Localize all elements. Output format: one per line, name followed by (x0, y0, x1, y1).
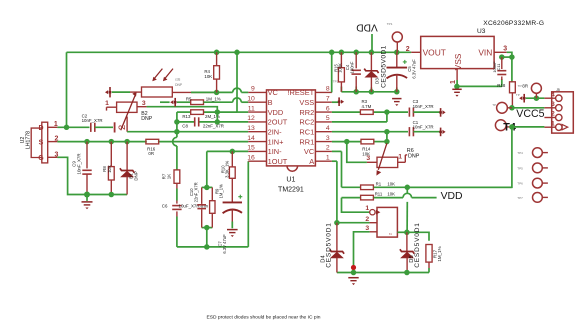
net flag B (170, 98, 176, 107)
node VDD junction C5 (394, 50, 400, 56)
Q1 pin1 bubble (365, 205, 380, 215)
wire pin4 row (332, 131, 408, 133)
svg-text:DNP: DNP (408, 154, 420, 160)
svg-text:15: 15 (247, 145, 255, 152)
node VSS junction (454, 84, 460, 90)
node C8 left junction (174, 119, 180, 125)
net flag C1 (439, 128, 445, 137)
node A junction (334, 220, 340, 226)
ground output (348, 278, 358, 285)
svg-text:9: 9 (251, 86, 255, 93)
svg-text:R5: R5 (186, 97, 192, 102)
node R8 gnd junction (109, 192, 115, 198)
svg-text:4.7M: 4.7M (362, 104, 372, 109)
svg-text:TP: TP (516, 93, 520, 97)
regulator U3 XC6206P332MR-G body (421, 36, 494, 70)
resistor R11 (361, 191, 396, 200)
resistor R9 (210, 184, 224, 228)
svg-text:!RESET: !RESET (287, 88, 314, 97)
svg-text:TP5: TP5 (517, 167, 523, 171)
node C10R9 bottom junction (204, 225, 210, 231)
wire VDD top rail (67, 52, 412, 127)
connector J5 body (552, 88, 574, 133)
resistor R5 (177, 97, 248, 105)
svg-text:TP1: TP1 (387, 22, 393, 26)
capacitor C2 (82, 114, 103, 132)
capacitor C4 (345, 52, 361, 92)
node R8 top junction (109, 139, 115, 145)
wire B2 wiper to pin13 column (127, 131, 177, 133)
svg-text:22nF_X7R: 22nF_X7R (203, 124, 224, 129)
svg-text:DNP: DNP (133, 171, 138, 180)
node C9 top junction (84, 139, 90, 145)
svg-text:5: 5 (326, 115, 330, 122)
svg-text:LH1778: LH1778 (26, 131, 32, 149)
svg-text:10nF_X7R: 10nF_X7R (77, 154, 82, 175)
svg-text:VIN: VIN (478, 47, 492, 57)
svg-text:2IN-: 2IN- (268, 127, 283, 136)
node pin4 junction (384, 129, 390, 135)
node R1 out junction (405, 185, 411, 191)
capacitor C3 (409, 99, 433, 117)
svg-text:R11: R11 (375, 191, 383, 196)
wire pin5 row (332, 112, 387, 122)
pin U2.2 (48, 136, 59, 143)
node VDD junction pin8 column (329, 50, 335, 56)
U1 left pin numbers (247, 86, 255, 162)
U1 left pin names (268, 88, 288, 166)
svg-text:1: 1 (450, 80, 457, 84)
transistor Q1 body (377, 207, 397, 237)
wire R11 left to Q1 pin1 (342, 198, 370, 213)
svg-text:D: D (38, 125, 43, 132)
photoresistor R2 body (130, 87, 172, 97)
svg-text:2OUT: 2OUT (268, 118, 288, 127)
wire R11 right to VDD (374, 193, 437, 197)
label VDD right (441, 191, 463, 202)
wire C3 out (413, 111, 439, 113)
svg-text:DNP: DNP (175, 83, 183, 87)
svg-text:2: 2 (551, 111, 555, 118)
label R6 DNP (407, 148, 420, 160)
resistor R3 (360, 99, 373, 114)
wire T4 column down (407, 127, 512, 187)
node gnd rail junction (351, 270, 357, 276)
net flag J5 pin4 (516, 93, 545, 102)
svg-text:B: B (268, 98, 273, 107)
svg-text:C6: C6 (162, 203, 168, 208)
svg-text:J5: J5 (556, 88, 560, 92)
svg-text:VDD: VDD (441, 191, 463, 202)
U1 right pin numbers (326, 86, 330, 162)
test point TP12 (531, 83, 541, 98)
svg-text:3: 3 (366, 155, 370, 162)
svg-text:TP7: TP7 (517, 196, 523, 200)
test point TP10 (495, 120, 512, 131)
capacitor C6 (162, 183, 209, 247)
resistor R4 (204, 52, 219, 92)
svg-text:10K: 10K (204, 74, 212, 79)
resistor R16 (146, 139, 159, 156)
svg-text:VDD: VDD (268, 108, 284, 117)
svg-text:VCC5: VCC5 (516, 108, 544, 120)
svg-text:CESD5V0D1: CESD5V0D1 (380, 45, 387, 88)
label XC6206P332MR-G (483, 20, 544, 27)
node mini rail C5 (394, 89, 400, 95)
node VIN junction left (499, 54, 512, 60)
net flag C3 (439, 108, 445, 117)
svg-text:CESD5V0D1: CESD5V0D1 (414, 222, 421, 268)
svg-text:cds: cds (175, 78, 180, 82)
note ESD placement (207, 314, 321, 320)
svg-text:S: S (39, 139, 44, 146)
trimmer R6 DNP body (347, 142, 407, 168)
node R13 right junction (215, 109, 221, 115)
J5 pin circles (556, 95, 562, 130)
resistor R7 (162, 170, 180, 183)
wire left column R13-C8-pin13 (173, 112, 177, 170)
node RR1 left junction (344, 139, 350, 145)
svg-text:7: 7 (326, 95, 330, 102)
svg-text:3.3K_1%: 3.3K_1% (225, 161, 230, 178)
node D5 gnd junction (404, 270, 410, 276)
svg-text:VC: VC (268, 88, 279, 97)
label cds DNP (175, 78, 183, 87)
pin U2.1 (48, 121, 58, 128)
node J5 pin4 junction (534, 95, 540, 101)
node R3 out junction (384, 109, 390, 115)
wire to R17 (407, 232, 429, 241)
wire pin15 column (206, 151, 208, 187)
node LDR/R4 junction (214, 90, 220, 96)
svg-text:3: 3 (551, 101, 555, 108)
wire C10R9 top bar (202, 186, 213, 188)
svg-text:RR2: RR2 (299, 108, 314, 117)
U1 right pin names (287, 88, 314, 166)
node VDD junction R4 (214, 50, 220, 56)
node VDD junction R15 (339, 50, 345, 56)
Q1 pin3 stub (365, 225, 377, 232)
svg-text:1OUT: 1OUT (268, 157, 288, 166)
wire pin1 A column (332, 161, 337, 223)
svg-text:VOUT: VOUT (423, 47, 446, 57)
label U3 (477, 28, 486, 35)
pin U3.3 VIN (494, 45, 507, 52)
svg-text:1IN-: 1IN- (268, 147, 283, 156)
svg-text:6.3V 47uF: 6.3V 47uF (222, 234, 227, 254)
svg-text:1M_1%: 1M_1% (219, 184, 224, 198)
svg-text:VSS: VSS (453, 53, 463, 70)
svg-text:RR1: RR1 (299, 137, 314, 146)
node D4 gnd corner (0, 0, 1, 1)
svg-text:3R: 3R (522, 84, 528, 89)
wire ESD bottom rail (337, 272, 429, 274)
test points TP4-TP7 (517, 148, 548, 203)
svg-text:TM2291: TM2291 (278, 186, 304, 193)
svg-text:3: 3 (326, 135, 330, 142)
svg-text:22nF_X7R: 22nF_X7R (193, 182, 198, 202)
svg-text:14: 14 (247, 135, 255, 142)
trimmer B2 body (105, 91, 146, 130)
svg-text:VSS: VSS (299, 98, 314, 107)
svg-text:G: G (38, 155, 44, 162)
wire Q1 pin3 to gnd (354, 232, 370, 273)
Q1 pin2 stub (365, 216, 377, 223)
node VCC5 junction (509, 105, 515, 111)
node C9 gnd junction (84, 192, 90, 198)
pin U3.1 VSS (450, 69, 457, 87)
capacitor C11 (492, 57, 506, 80)
node gnd red junction (351, 265, 356, 270)
capacitor C7 (217, 195, 242, 254)
svg-text:ESD protect diodes should be p: ESD protect diodes should be placed near… (207, 314, 321, 320)
wire vertical R13 to C8 (216, 112, 218, 122)
svg-text:1: 1 (105, 100, 109, 107)
wire U2 pin3 to gnd rail (57, 157, 127, 194)
op-amp U1 TM2291 body (267, 90, 316, 171)
svg-text:1: 1 (551, 120, 555, 127)
wire pin8 to VDD rail (331, 52, 333, 92)
svg-text:DNP: DNP (141, 116, 152, 122)
svg-text:2: 2 (406, 46, 410, 53)
diode D5 CESD5V0D1 (400, 222, 421, 272)
svg-text:10K: 10K (107, 165, 112, 173)
wire C8 row / pin12 (177, 121, 248, 123)
node mini rail D3 (369, 89, 375, 95)
svg-text:CESD5V0D1: CESD5V0D1 (326, 222, 333, 268)
resistor R10 (220, 151, 235, 202)
svg-text:XC6206P332MR-G: XC6206P332MR-G (483, 20, 544, 27)
svg-text:2: 2 (365, 216, 369, 223)
wire pin15 row (207, 150, 249, 152)
capacitor C8 (182, 117, 224, 128)
wire net B stub (160, 101, 170, 103)
svg-text:3: 3 (503, 45, 507, 52)
resistor R15 (334, 52, 345, 92)
test point TP9 (492, 102, 512, 113)
svg-text:C8: C8 (182, 124, 188, 129)
wire pin4-pin3 link (386, 132, 388, 142)
svg-text:8: 8 (326, 86, 330, 93)
svg-text:RC1: RC1 (299, 127, 314, 136)
svg-text:TP6: TP6 (517, 182, 523, 186)
wire VIN elbow (507, 52, 512, 57)
resistor R17 (426, 245, 442, 273)
net flag photoresistor left (105, 87, 130, 97)
wire bottom rail mid (177, 246, 248, 248)
wire pin3 row (332, 141, 387, 143)
wire pin13 row (177, 131, 248, 133)
wire pin11 column (237, 52, 248, 112)
label VDD (rotated) (356, 21, 378, 32)
svg-text:0R: 0R (148, 151, 154, 156)
capacitor C10 (189, 182, 206, 227)
svg-text:R1: R1 (376, 181, 382, 186)
node VDD junction C4 (353, 50, 359, 56)
ground U3 (452, 89, 461, 96)
wire C10R9 to bottom rail (206, 228, 208, 247)
svg-text:VDD: VDD (356, 21, 378, 32)
J5 pin stubs (544, 98, 555, 127)
svg-text:13: 13 (247, 125, 255, 132)
svg-text:3: 3 (365, 225, 369, 232)
svg-text:D3: D3 (375, 78, 380, 84)
svg-text:16: 16 (247, 154, 255, 161)
wire U2 pin1 to C2 (57, 126, 89, 128)
wire T4 column lower (406, 187, 408, 232)
svg-text:1: 1 (54, 121, 58, 128)
U1 left pin stubs (248, 92, 266, 161)
svg-text:12: 12 (247, 115, 255, 122)
label T4 (503, 121, 516, 133)
svg-text:10nF_X7R: 10nF_X7R (82, 118, 103, 123)
wire C2 to B2 wiper (95, 126, 113, 128)
svg-text:1M_1%: 1M_1% (437, 246, 442, 261)
ground power rail (392, 99, 401, 106)
resistor R14 (361, 139, 374, 156)
svg-text:10: 10 (247, 95, 255, 102)
capacitor C5 (387, 52, 417, 92)
net flag pin7 VSS (332, 97, 344, 106)
svg-text:R13: R13 (182, 114, 191, 119)
svg-text:10K: 10K (387, 181, 395, 186)
wire VDD label stub (371, 34, 373, 52)
wire U2 pin2 row (57, 141, 248, 143)
label U1 TM2291 (278, 177, 304, 194)
diode D4 CESD5V0D1 (321, 222, 345, 272)
svg-text:TP: TP (492, 103, 496, 107)
wire pin16 column (247, 161, 249, 247)
node mini rail C4 (353, 89, 359, 95)
node RR1 right junction (384, 139, 390, 145)
svg-text:4: 4 (326, 125, 330, 132)
ground mic (82, 195, 93, 210)
svg-text:11: 11 (248, 105, 255, 112)
photoresistor arrows (152, 69, 173, 82)
ground C7 (227, 230, 238, 237)
svg-text:1: 1 (365, 205, 369, 212)
svg-text:10nF_X7R: 10nF_X7R (413, 104, 434, 109)
svg-text:10nF_X7R: 10nF_X7R (413, 125, 434, 130)
node B1 top junction (124, 139, 130, 145)
wire pin6 row (332, 111, 408, 113)
pin U3.2 VOUT (406, 46, 421, 53)
label U2 LH1778 (20, 131, 32, 149)
capacitor C1 (409, 120, 433, 136)
resistor R13 (182, 110, 220, 119)
wire C10R9 bottom bar (202, 227, 213, 229)
node Q1/D5/R17 junction (404, 230, 410, 236)
wire pin11 row R13 (177, 111, 237, 113)
label VCC5 (516, 108, 544, 120)
svg-text:1IN+: 1IN+ (268, 137, 284, 146)
svg-text:U3: U3 (477, 28, 486, 35)
svg-text:103K: 103K (338, 63, 343, 73)
node U2 pin1 junction (64, 125, 70, 131)
wire C1 out (413, 131, 439, 133)
svg-text:4: 4 (551, 91, 555, 98)
node VIN junction right (509, 54, 515, 60)
svg-text:U1: U1 (286, 177, 295, 184)
svg-text:RC2: RC2 (299, 118, 314, 127)
node C8 right junction (215, 119, 221, 125)
resistor R18 (497, 57, 528, 108)
pin U2.3 (48, 151, 59, 158)
wire R1 to T4 node (374, 186, 512, 188)
svg-text:6.3V 47uF: 6.3V 47uF (412, 59, 417, 79)
J5 pin1 arrow (562, 124, 568, 129)
svg-text:A: A (309, 157, 314, 166)
node pin9 column top (216, 121, 218, 123)
wire gnd mini rail (341, 87, 396, 92)
wire Q1 right to T4 node (397, 231, 407, 233)
wire VCC5 row (512, 107, 545, 109)
label B2 DNP (141, 111, 152, 122)
trimmer B2 wiper pin2 bar (115, 117, 128, 133)
svg-text:2: 2 (326, 145, 330, 152)
resistor R1 (361, 181, 396, 189)
wire B2 pin3 to R13 junction (137, 107, 217, 112)
svg-text:R18: R18 (497, 83, 506, 88)
node pin13 junction (174, 129, 180, 135)
svg-text:1K: 1K (166, 174, 171, 179)
svg-text:VC: VC (304, 147, 315, 156)
svg-text:100nF: 100nF (349, 61, 354, 73)
svg-text:C11: C11 (496, 63, 501, 71)
wire VSS to C11 (457, 79, 502, 86)
diode B1 DNP (120, 142, 138, 195)
svg-text:1: 1 (398, 153, 402, 160)
label TP2 tiny (333, 79, 339, 83)
U1 right pin stubs (315, 92, 332, 161)
connector U2 LH1778 symbol (31, 122, 48, 163)
capacitor C9 (72, 142, 92, 195)
node VDD junction D3 (369, 50, 375, 56)
node C10R9 top junction (204, 185, 210, 191)
node pin15/R10 junction (230, 149, 236, 155)
trimmer R6 wiper arrow (376, 143, 387, 175)
resistor R8 (102, 142, 114, 195)
svg-text:6: 6 (326, 105, 330, 112)
svg-text:10K: 10K (387, 191, 395, 196)
node T4 junction (509, 124, 515, 129)
svg-text:1M_1%: 1M_1% (206, 97, 221, 102)
diode D3 CESD5V0D1 (364, 45, 387, 92)
node bottom rail junction (204, 244, 210, 250)
svg-text:TP4: TP4 (517, 151, 523, 155)
J5 pin numbers (551, 91, 555, 127)
test point TP1 (387, 22, 403, 53)
wire T4 row (512, 126, 545, 128)
wire pin2 to R1 (332, 151, 360, 187)
svg-text:1: 1 (326, 154, 330, 161)
wire A to Q1 pin2 (337, 222, 370, 224)
wire LDR to pin9 row (172, 88, 248, 92)
node VDD junction pin11 column (234, 50, 240, 56)
